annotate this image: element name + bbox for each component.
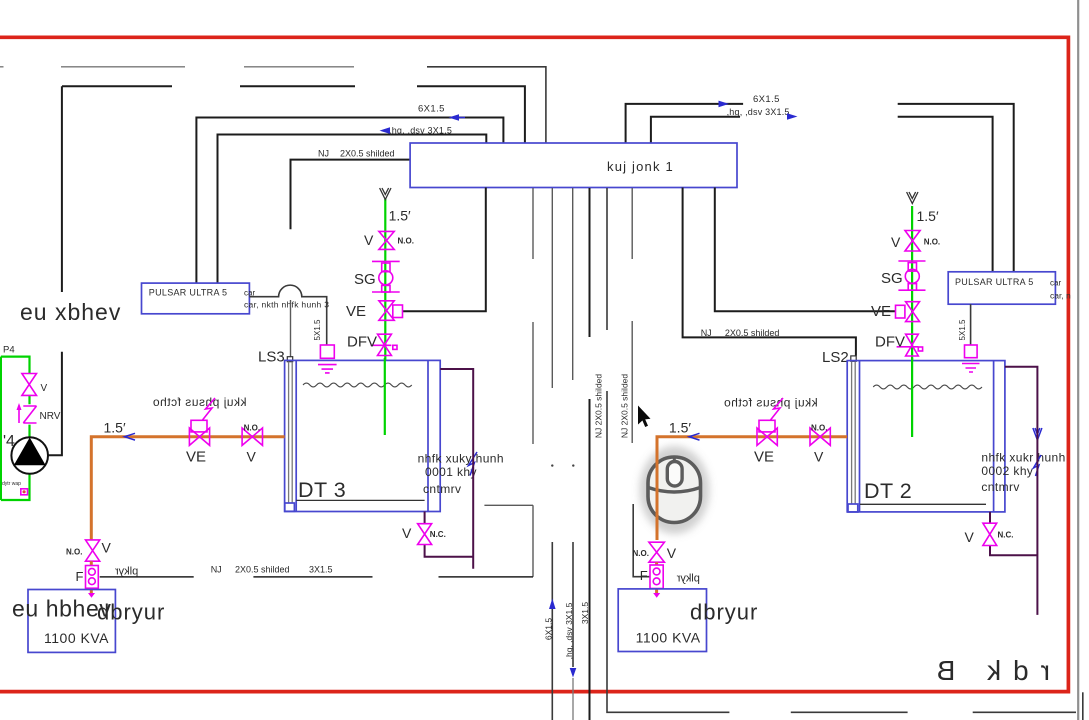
svg-text:V: V: [41, 383, 48, 394]
valve V N.C. left: [418, 524, 432, 545]
wire LS3 probe stub: [290, 300, 292, 357]
arrow blue right top: [719, 101, 730, 108]
svg-text:0001 khy: 0001 khy: [425, 465, 477, 479]
junction box kuj jonk 1: [410, 143, 737, 188]
svg-text:rdk B: rdk B: [925, 655, 1050, 686]
svg-text:N.C.: N.C.: [998, 531, 1014, 540]
svg-text:NJ 2X0.5 shilded: NJ 2X0.5 shilded: [620, 374, 630, 439]
svg-text:DFV: DFV: [875, 334, 905, 351]
lightning bolt right: [771, 398, 784, 420]
svg-text:F: F: [76, 569, 84, 584]
svg-text:SG: SG: [881, 270, 903, 287]
svg-text:V: V: [102, 540, 112, 556]
wire bottom right edge: [1082, 692, 1084, 720]
check valve NRV: [19, 406, 37, 423]
svg-text:6X1.5: 6X1.5: [544, 618, 554, 640]
tank DT3 bottom line: [296, 499, 424, 501]
svg-text:V: V: [247, 449, 257, 465]
blue doodle right: [1034, 455, 1042, 476]
arrow blue right second: [787, 113, 798, 120]
svg-text:6X1.5: 6X1.5: [753, 94, 780, 105]
svg-text:5X1.5: 5X1.5: [958, 319, 967, 340]
svg-text:VE: VE: [346, 303, 366, 320]
wire 6X1.5 left: [196, 118, 503, 284]
flow arrow blue left pipe: [125, 433, 136, 440]
svg-text:DT 2: DT 2: [864, 479, 912, 503]
valve N.O. bottom right: [649, 542, 665, 562]
arrow blue on 3X1.5 left: [380, 127, 391, 134]
svg-text:kkuj phsus fctho: kkuj phsus fctho: [724, 395, 818, 409]
valve VE right pipe: [757, 428, 777, 445]
svg-text:PULSAR ULTRA 5: PULSAR ULTRA 5: [149, 288, 228, 298]
svg-text:DT 3: DT 3: [298, 478, 346, 502]
transformer box left: [28, 590, 115, 653]
svg-text:V: V: [891, 234, 901, 250]
svg-text:LS2: LS2: [822, 349, 849, 366]
valve V N.C. right: [983, 523, 997, 545]
wire to LS2: [683, 188, 856, 356]
svg-text:N.O.: N.O.: [633, 549, 649, 558]
arrow glyph top left train: [380, 188, 391, 200]
svg-text:1.5′: 1.5′: [389, 208, 411, 224]
ground symbol right: [962, 364, 980, 373]
bundle line E: [607, 188, 729, 712]
svg-text:1.5′: 1.5′: [104, 420, 126, 436]
svg-text:LS3: LS3: [258, 349, 285, 366]
transformer box right: [618, 589, 706, 652]
valve DFV left train: [371, 334, 392, 355]
svg-text:car, n: car, n: [1050, 291, 1071, 301]
wire to F meter right: [633, 504, 649, 577]
svg-text:F: F: [640, 568, 648, 583]
wire 6X1.5 right: [626, 104, 1014, 272]
svg-text:P4: P4: [3, 345, 15, 356]
level rod green DT2: [911, 358, 913, 437]
svg-text:3X1.5: 3X1.5: [309, 565, 333, 575]
svg-text:N.C.: N.C.: [430, 530, 446, 539]
LS2 probe foot: [848, 504, 858, 512]
wire car with hop: [249, 285, 326, 345]
svg-text:V: V: [965, 529, 975, 545]
arrow blue up: [549, 599, 556, 610]
tank DT3 shell: [285, 360, 441, 511]
tank DT2 bottom line: [860, 503, 986, 505]
node LS3: [287, 357, 292, 362]
valve VE left train: [379, 301, 394, 321]
wire sensor right: [970, 304, 972, 345]
arrow blue down: [570, 668, 577, 678]
wire NJ 2X0.5 shilded left: [291, 160, 411, 230]
solenoid VE right pipe: [759, 420, 775, 432]
sight glass SG left: [372, 261, 400, 292]
svg-text:2X0.5 shilded: 2X0.5 shilded: [725, 328, 780, 338]
LS3 probe foot: [285, 503, 295, 511]
pipe green right train: [911, 206, 913, 360]
svg-text:1.5′: 1.5′: [669, 420, 691, 436]
wire 3X1.5 right: [651, 117, 993, 272]
svg-text:,hg, ,dsv 3X1.5: ,hg, ,dsv 3X1.5: [727, 107, 790, 117]
level rod green DT3: [384, 358, 386, 435]
svg-text:'4: '4: [3, 433, 15, 450]
bundle line C: [572, 188, 574, 380]
svg-text:1100 KVA: 1100 KVA: [44, 630, 109, 646]
svg-text:NRV: NRV: [40, 411, 61, 422]
svg-text:car: car: [1050, 279, 1061, 288]
wire W2 left vertical: [48, 86, 62, 455]
tank DT2 shell: [847, 361, 1005, 512]
mouse icon: [640, 446, 710, 534]
wire to VE left: [403, 188, 486, 312]
svg-text:SG: SG: [354, 271, 376, 288]
sensor box left: [320, 345, 334, 358]
valve V pump branch: [22, 374, 37, 396]
flow arrow blue right pipe: [689, 433, 700, 440]
svg-text:NJ: NJ: [318, 149, 329, 159]
svg-text:car, nkth nhfk hunh 3: car, nkth nhfk hunh 3: [244, 300, 329, 310]
pipe orange right: [657, 437, 847, 540]
arrow glyph top right train: [907, 192, 918, 204]
svg-text:5X1.5: 5X1.5: [313, 319, 322, 340]
svg-text:cntmrv: cntmrv: [423, 482, 461, 496]
svg-text:NJ: NJ: [701, 328, 712, 338]
LS2 probe lines: [852, 362, 856, 504]
svg-text:N.O.: N.O.: [398, 237, 414, 246]
svg-text:2X0.5 shilded: 2X0.5 shilded: [235, 565, 290, 575]
svg-text:DFV: DFV: [347, 334, 377, 351]
water line DT3: [303, 383, 412, 387]
pipe green left train: [384, 199, 386, 360]
svg-text:kuj jonk 1: kuj jonk 1: [607, 159, 674, 174]
wire F signal left: [100, 576, 533, 578]
valve N.O. bottom left: [86, 540, 100, 561]
valve V N.O. left train: [379, 231, 394, 249]
wire W1 corner into junction box: [427, 67, 546, 143]
svg-text:,hg, ,dsv 3X1.5: ,hg, ,dsv 3X1.5: [389, 126, 452, 136]
bundle line A: [484, 188, 533, 577]
svg-text:plkyr: plkyr: [676, 573, 700, 585]
svg-text:N.O.: N.O.: [924, 238, 940, 247]
svg-text:,hg, ,dsv 3X1.5: ,hg, ,dsv 3X1.5: [564, 602, 574, 659]
PULSAR ULTRA 5 box right: [948, 272, 1055, 304]
ground symbol left: [318, 365, 337, 373]
svg-text:N.O.: N.O.: [66, 548, 82, 557]
wire to VE right: [715, 188, 896, 312]
svg-text:VE: VE: [754, 449, 774, 466]
drain purple left: [440, 369, 473, 569]
valve V N.O. left pipe: [242, 428, 262, 445]
svg-text:nhfk xuky hunh: nhfk xuky hunh: [418, 452, 504, 466]
svg-text:V: V: [814, 449, 824, 465]
bundle line B 6X1.5: [551, 188, 553, 388]
svg-text:dbryur: dbryur: [97, 600, 165, 625]
LS3 probe lines: [289, 362, 293, 503]
sensor box right: [965, 345, 978, 358]
pump P4: [11, 437, 48, 474]
svg-text:NJ: NJ: [211, 565, 222, 575]
svg-text:eu xbhev: eu xbhev: [20, 299, 121, 325]
flow meter F left: [90, 561, 93, 593]
svg-text:6X1.5: 6X1.5: [418, 104, 445, 115]
svg-text:V: V: [364, 232, 374, 248]
PULSAR ULTRA 5 box left: [142, 283, 250, 314]
window edge gray line: [1077, 0, 1079, 720]
wires below frame bottom: [791, 711, 1076, 713]
cursor arrow: [638, 406, 651, 428]
svg-text:1.5′: 1.5′: [917, 208, 939, 224]
svg-text:2X0.5 shilded: 2X0.5 shilded: [340, 149, 395, 159]
solenoid VE left pipe: [191, 420, 207, 432]
svg-text:VE: VE: [186, 449, 206, 466]
svg-text:V: V: [402, 525, 412, 541]
wire W2 top dark: [62, 86, 525, 143]
valve VE right train: [906, 302, 920, 322]
svg-text:1100 KVA: 1100 KVA: [636, 630, 701, 646]
svg-text:nhfk xukr hunh: nhfk xukr hunh: [981, 451, 1065, 465]
wire W1 top thin: [0, 66, 354, 68]
wire 3X1.5 left: [218, 135, 487, 284]
arrow blue on 6X1.5 left: [449, 114, 460, 121]
node LS2: [851, 356, 856, 361]
svg-text:N.O.: N.O.: [811, 424, 827, 433]
valve VE left pipe: [189, 428, 209, 445]
dots: [551, 464, 553, 466]
svg-text:NJ 2X0.5 shilded: NJ 2X0.5 shilded: [594, 374, 604, 439]
valve DFV right train: [897, 334, 919, 356]
blue arrow on purple right: [1033, 428, 1042, 440]
svg-text:0002 khy: 0002 khy: [981, 464, 1033, 478]
svg-text:VE: VE: [871, 303, 891, 320]
bundle line D: [589, 188, 591, 720]
pipe green pump branch: [1, 357, 30, 500]
svg-text:dytr wap: dytr wap: [2, 481, 21, 487]
pipe orange left: [91, 437, 284, 540]
blue doodle left: [469, 452, 478, 476]
valve V N.O. right train: [905, 231, 920, 252]
bundle line F: [631, 188, 633, 443]
svg-text:3X1.5: 3X1.5: [580, 602, 590, 624]
lightning bolt left: [203, 398, 216, 420]
icon magenta small: [21, 489, 28, 495]
svg-text:plkyr: plkyr: [115, 566, 139, 578]
water line DT2: [873, 385, 982, 389]
svg-text:V: V: [667, 545, 677, 561]
svg-text:cntmrv: cntmrv: [981, 480, 1019, 494]
flow meter F right: [655, 562, 658, 593]
valve V N.O. right pipe: [810, 428, 830, 445]
svg-text:N.O.: N.O.: [244, 424, 260, 433]
svg-text:PULSAR ULTRA 5: PULSAR ULTRA 5: [955, 277, 1034, 287]
sight glass SG right: [898, 261, 925, 290]
svg-text:dbryur: dbryur: [690, 600, 758, 625]
drain purple right: [1005, 367, 1038, 615]
svg-text:kkuj phsus fctho: kkuj phsus fctho: [152, 395, 246, 409]
